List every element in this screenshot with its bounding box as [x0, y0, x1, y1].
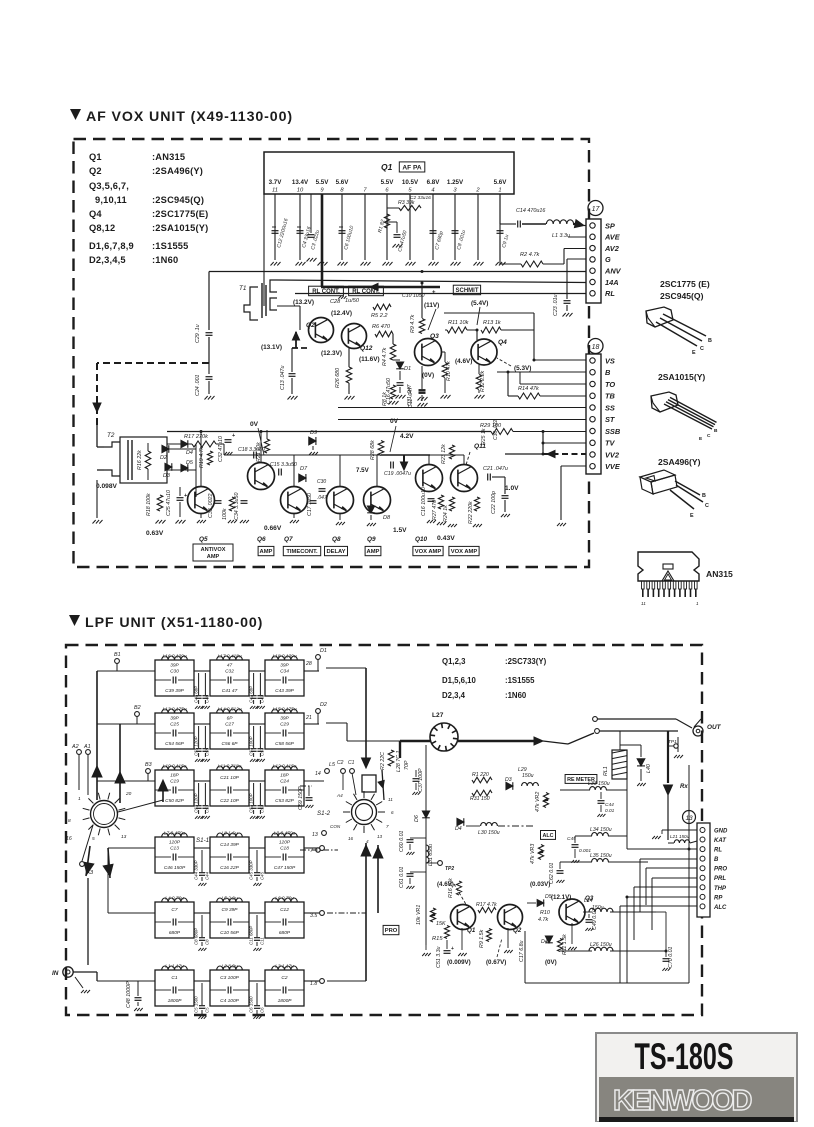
resistor R26 680	[346, 367, 352, 383]
B pin wire	[640, 858, 697, 860]
svg-text:(0.03V): (0.03V)	[530, 881, 550, 888]
svg-text:L8 1.6u: L8 1.6u	[221, 831, 237, 837]
filter block L2 8.9u	[210, 970, 249, 1006]
svg-text:5.6V: 5.6V	[494, 179, 508, 186]
svg-text:6P: 6P	[227, 716, 234, 722]
capacitor C31 .047	[421, 366, 423, 388]
IC package AN315 drawing	[638, 552, 699, 581]
svg-text:RL CONT.: RL CONT.	[352, 289, 380, 295]
svg-text:R2 4.7k: R2 4.7k	[520, 252, 540, 258]
svg-text:4.2V: 4.2V	[400, 433, 414, 440]
svg-text:T2: T2	[107, 432, 115, 439]
capacitor C61 0.01	[410, 871, 426, 873]
resistor R19 4.7k	[207, 451, 212, 465]
svg-text:L10 0.115u: L10 0.115u	[163, 764, 187, 770]
LPF filter row at y=671	[97, 670, 155, 672]
rotary switch S1-2	[352, 800, 377, 825]
svg-text:120P: 120P	[169, 840, 181, 846]
svg-text:R10: R10	[540, 910, 550, 916]
svg-text:VVE: VVE	[605, 462, 621, 471]
svg-text:AMP: AMP	[207, 554, 220, 560]
coil L35	[592, 859, 609, 863]
svg-text:C34 3.3u50: C34 3.3u50	[234, 493, 240, 520]
inductor L1 3.3u	[546, 220, 573, 224]
wire AVE stub	[568, 236, 586, 238]
svg-text:39P: 39P	[170, 663, 179, 669]
ground row Q5	[197, 520, 200, 523]
svg-text:5.5V: 5.5V	[381, 179, 395, 186]
RL pin wire	[627, 848, 697, 850]
grounds under Q1 Q2	[461, 928, 463, 950]
resistor R2 22C	[388, 750, 394, 766]
resistor R4 4.7k	[390, 344, 396, 360]
svg-text:R23 12k: R23 12k	[441, 444, 447, 464]
resistor R27 470	[438, 495, 443, 509]
function label VOX AMP 2	[449, 546, 479, 555]
svg-text:LPF UNIT (X51-1180-00): LPF UNIT (X51-1180-00)	[85, 615, 263, 631]
svg-text:2SA1015(Y): 2SA1015(Y)	[658, 372, 705, 382]
svg-text:0.63V: 0.63V	[146, 530, 164, 537]
filter block L9 0.479u	[265, 837, 304, 873]
capacitor C16 100u10	[428, 498, 435, 500]
svg-text:C56 6P: C56 6P	[222, 741, 239, 747]
row output terminal 3.5	[320, 911, 325, 916]
svg-text:1.5V: 1.5V	[393, 527, 407, 534]
J17 pin 6 14A	[590, 279, 595, 284]
svg-text:D2,3,4,5: D2,3,4,5	[89, 255, 126, 265]
J13 pin 8 RP	[700, 894, 705, 899]
svg-text:R12 2.2k: R12 2.2k	[480, 370, 486, 392]
diode D7 rail	[422, 811, 429, 818]
label RL CONT 2	[349, 286, 384, 296]
svg-text:680P: 680P	[169, 930, 181, 936]
coil L26 line	[589, 947, 613, 951]
LPF filter row at y=781	[97, 780, 155, 782]
J18 pin 7 SSB	[590, 428, 595, 433]
coil L24	[589, 908, 613, 912]
OUT ground	[677, 737, 679, 752]
J13 pin 4 B	[700, 856, 705, 861]
wire bus SSB with R29	[491, 429, 513, 435]
svg-text:(5.3V): (5.3V)	[514, 365, 531, 372]
wire to J18	[510, 329, 534, 331]
svg-text:R17 270k: R17 270k	[184, 434, 209, 440]
capacitor C32 47u10	[225, 439, 232, 441]
svg-text:47k VR2: 47k VR2	[535, 792, 541, 812]
filter block L10 0.115u	[155, 770, 194, 806]
svg-text:C51 120P: C51 120P	[194, 793, 199, 813]
capacitor C4 33/16	[297, 230, 304, 232]
svg-text:C39 39P: C39 39P	[165, 688, 184, 694]
svg-text:ST: ST	[605, 415, 616, 424]
wire S1-1 down to IN line	[87, 878, 89, 965]
PRO pin wire	[646, 867, 697, 869]
rotary switch S1-1	[91, 801, 118, 828]
resistor R20 100k	[229, 497, 234, 511]
svg-text:SP: SP	[605, 221, 615, 230]
svg-text:D1: D1	[320, 648, 327, 654]
transistor Q2 LPF	[498, 905, 523, 930]
J13 pin 7 THP	[700, 885, 705, 890]
J17 pin 4 G	[590, 257, 595, 262]
J18 pin 10 VVE	[590, 464, 595, 469]
svg-text:2SC945(Q): 2SC945(Q)	[660, 291, 704, 301]
resistor R21 10k	[264, 439, 269, 453]
ALC pin wire	[620, 905, 697, 907]
svg-text:Q1,2,3: Q1,2,3	[442, 657, 466, 666]
svg-text:C42 68P: C42 68P	[249, 686, 254, 703]
svg-text:13.4V: 13.4V	[292, 179, 309, 186]
svg-text:D2,3,4: D2,3,4	[442, 691, 466, 700]
heavy wire down arrow	[400, 462, 407, 470]
svg-text:C4 100P: C4 100P	[220, 998, 239, 1004]
wire to ALC	[498, 825, 535, 827]
filter block L18 0.139u	[265, 660, 304, 696]
svg-text:1800P: 1800P	[168, 998, 183, 1004]
svg-text:4.7k: 4.7k	[538, 917, 548, 923]
svg-text:100k: 100k	[222, 508, 228, 520]
svg-text:VOX AMP: VOX AMP	[415, 549, 442, 555]
function label AMP 1	[258, 546, 274, 555]
coil L25 KAT line	[668, 842, 674, 844]
svg-text:C8 680P: C8 680P	[194, 928, 199, 945]
svg-text:R9 1.5k: R9 1.5k	[479, 929, 485, 948]
svg-text:C18 3.3u50: C18 3.3u50	[238, 447, 265, 453]
svg-text:D1,6,7,8,9: D1,6,7,8,9	[89, 241, 134, 251]
svg-text:C7: C7	[171, 907, 177, 913]
svg-text:20: 20	[125, 791, 132, 797]
resistor R31 150	[472, 790, 492, 796]
connector J18 circle	[588, 339, 603, 354]
svg-text:7: 7	[363, 188, 367, 194]
VR2 pot	[543, 793, 548, 808]
row input terminal B3	[146, 769, 151, 774]
wire R17 to bus right	[223, 444, 225, 455]
row output terminal 7	[320, 846, 325, 851]
svg-text:5: 5	[92, 836, 95, 842]
wire Q3 out right	[646, 904, 656, 906]
svg-text:E: E	[699, 436, 703, 442]
transistor Q3 LPF	[559, 899, 585, 925]
svg-text:KENWOOD: KENWOOD	[613, 1085, 753, 1117]
svg-text:L1 1.17u: L1 1.17u	[165, 964, 184, 970]
package 2SA496 drawing	[640, 470, 675, 482]
svg-text:3.7V: 3.7V	[269, 179, 283, 186]
J17 pin 5 ANV	[590, 268, 595, 273]
svg-text:C11 680P: C11 680P	[249, 926, 254, 945]
wire switch to OUT	[597, 718, 676, 720]
svg-text:1u/50: 1u/50	[345, 298, 360, 304]
svg-text:680P: 680P	[279, 930, 291, 936]
svg-text:47: 47	[227, 663, 233, 669]
row output terminal 21	[316, 709, 321, 714]
terminal A3	[80, 862, 85, 867]
svg-text:C25 47u10: C25 47u10	[166, 490, 172, 516]
svg-text:0V: 0V	[250, 421, 259, 428]
capacitor C6 100/10	[339, 230, 346, 232]
svg-text:C34: C34	[280, 669, 289, 675]
wire Q10 Q11 collectors	[428, 455, 430, 465]
resistor R16 10k	[456, 881, 461, 895]
svg-text:C55: C55	[205, 747, 210, 756]
junction heavy dashed wire	[97, 362, 209, 364]
svg-text:+: +	[232, 433, 235, 439]
function label VOX AMP 1	[413, 546, 443, 555]
J18 pin 5 SS	[590, 405, 595, 410]
svg-text:0.098V: 0.098V	[96, 483, 118, 490]
svg-text:C46 150P: C46 150P	[164, 865, 186, 871]
svg-text:C: C	[705, 503, 709, 509]
capacitor C45 0.001	[572, 844, 579, 846]
svg-text:C52 100P: C52 100P	[249, 793, 254, 813]
J17 pin 7 RL	[590, 291, 595, 296]
J17 pin 2 AVE	[590, 234, 595, 239]
connector J17 circle	[588, 201, 603, 216]
svg-text:R10 47k: R10 47k	[446, 361, 452, 381]
resistor R16 22k	[145, 451, 151, 469]
svg-text:10.5V: 10.5V	[402, 179, 419, 186]
svg-text:ANV: ANV	[604, 267, 622, 276]
svg-text:C3 100P: C3 100P	[220, 975, 239, 981]
svg-text:18P: 18P	[170, 773, 179, 779]
svg-text:C60 0.01: C60 0.01	[399, 830, 405, 852]
wire Q6 collector to bus	[260, 432, 262, 464]
svg-text:D9: D9	[310, 430, 317, 436]
J18 pin 1 VS	[590, 358, 595, 363]
resistor R11 10k	[447, 327, 467, 333]
svg-text:8: 8	[340, 188, 344, 194]
svg-text:D3: D3	[505, 777, 512, 783]
svg-text:(5.4V): (5.4V)	[471, 300, 488, 307]
svg-text:L40: L40	[646, 764, 652, 773]
svg-text:+: +	[184, 493, 187, 499]
svg-text:C19: C19	[170, 779, 179, 785]
svg-text:Q2: Q2	[306, 322, 315, 329]
svg-text:E: E	[692, 350, 696, 356]
wire Q4 collector net	[476, 330, 478, 340]
svg-text:C9 1u: C9 1u	[501, 234, 510, 249]
S1-2 top terminals C2 C1	[341, 769, 346, 774]
svg-text:L34 150u: L34 150u	[590, 827, 612, 833]
VR3 pot	[538, 845, 543, 860]
svg-text:C8 .001u: C8 .001u	[456, 229, 467, 250]
svg-text:D6: D6	[414, 815, 420, 822]
IN jack	[63, 967, 73, 977]
svg-text:S1-1: S1-1	[196, 837, 209, 844]
svg-text:C44: C44	[205, 871, 210, 880]
svg-text:+: +	[451, 946, 454, 952]
svg-text:C29: C29	[280, 722, 289, 728]
svg-text:Q2: Q2	[513, 927, 522, 934]
capacitor C8 0.001	[452, 230, 459, 232]
svg-text:TIMECONT.: TIMECONT.	[286, 549, 318, 555]
capacitor C18 3.3u50 series	[253, 452, 255, 459]
svg-text:1.25V: 1.25V	[447, 179, 464, 186]
svg-text:R25 1k: R25 1k	[481, 428, 487, 445]
resistor R17 270k	[192, 441, 216, 447]
svg-text:R26 680: R26 680	[335, 368, 341, 388]
svg-text:C5 47u50: C5 47u50	[397, 230, 408, 253]
svg-text:C2: C2	[337, 760, 344, 766]
resistor R28 68k	[378, 441, 384, 456]
svg-text:C36 .022: C36 .022	[493, 419, 499, 440]
function label AMP 2	[365, 546, 381, 555]
svg-text:C: C	[707, 433, 711, 439]
capacitor C23 .01 on G line	[567, 258, 586, 260]
diode D2	[162, 445, 169, 452]
svg-text:Rx: Rx	[680, 784, 688, 790]
svg-text:C27: C27	[225, 722, 234, 728]
svg-text:C51 3.3u: C51 3.3u	[436, 946, 442, 968]
svg-text:2SA496(Y): 2SA496(Y)	[658, 457, 701, 467]
svg-text:AN315: AN315	[706, 569, 733, 579]
resistor R9 1.5k	[487, 929, 492, 942]
svg-text:16: 16	[66, 836, 72, 842]
resistor R11	[558, 939, 563, 952]
title AF VOX UNIT	[70, 109, 81, 120]
svg-text:R2 22C: R2 22C	[380, 752, 386, 770]
svg-text:B: B	[714, 428, 718, 434]
svg-text:C13 .047u: C13 .047u	[280, 366, 286, 390]
filter block L7 0.479u	[155, 837, 194, 873]
svg-text:RL1: RL1	[603, 766, 609, 776]
svg-text:TO: TO	[605, 380, 615, 389]
svg-text:C6: C6	[260, 1007, 265, 1013]
svg-text:ALC: ALC	[713, 905, 727, 911]
label SCHMIT	[453, 285, 480, 295]
svg-text:C6 1500: C6 1500	[249, 996, 254, 1013]
capacitor C24 .001	[208, 363, 210, 374]
svg-text:IN: IN	[52, 970, 59, 977]
svg-text:(4.6V): (4.6V)	[455, 358, 472, 365]
svg-text:Q4: Q4	[89, 209, 102, 219]
test point TP1	[674, 744, 678, 748]
svg-text:B1: B1	[114, 652, 121, 658]
svg-text:SSB: SSB	[605, 427, 621, 436]
wire bus ST	[338, 419, 586, 421]
diode D5 lpf	[537, 900, 544, 907]
J13 pin 9 ALC	[700, 904, 705, 909]
svg-text:C17 1u50: C17 1u50	[307, 493, 313, 516]
filter block L8 1.6u	[210, 837, 249, 873]
svg-text:PRO: PRO	[714, 867, 727, 873]
LPF filter row at y=724	[97, 723, 155, 725]
svg-text:TP1: TP1	[668, 739, 677, 745]
svg-text:L14 0.512u: L14 0.512u	[217, 707, 241, 713]
right vertical return wire	[688, 765, 690, 983]
svg-text:C11: C11	[260, 937, 265, 945]
svg-text:(0V): (0V)	[422, 372, 434, 379]
pot VR1 10k	[425, 957, 427, 959]
svg-text:C16 22P: C16 22P	[220, 865, 239, 871]
svg-text:C19 .0047u: C19 .0047u	[384, 471, 411, 477]
svg-text:R15: R15	[432, 936, 443, 942]
svg-text:C42: C42	[260, 694, 265, 703]
svg-text:C32 47u10: C32 47u10	[218, 436, 224, 462]
svg-text:1.8: 1.8	[310, 981, 317, 987]
svg-text:14: 14	[315, 771, 321, 777]
svg-text:C32: C32	[225, 669, 234, 675]
PRL pin wire	[652, 877, 697, 879]
svg-text:C37 100P: C37 100P	[418, 768, 424, 792]
svg-text:L26 150u: L26 150u	[590, 942, 612, 948]
wire base Q5	[195, 469, 197, 471]
AF VOX unit dashed border box	[74, 139, 590, 567]
svg-text:R19 4.7k: R19 4.7k	[199, 446, 205, 468]
svg-text:C12: C12	[280, 907, 289, 913]
inductor L30	[481, 823, 498, 827]
filter block L12 0.115u	[265, 770, 304, 806]
svg-text::2SA496(Y): :2SA496(Y)	[152, 166, 203, 176]
svg-text:C30: C30	[317, 479, 326, 485]
svg-text:150u: 150u	[522, 773, 534, 779]
transistor Q3	[415, 339, 442, 366]
svg-text:L13 0.175u: L13 0.175u	[162, 707, 186, 713]
label PRO box	[383, 925, 399, 934]
resistor R8 1k	[390, 385, 395, 399]
svg-text:L2 8.9u: L2 8.9u	[221, 964, 237, 970]
svg-text:Q3,5,6,7,: Q3,5,6,7,	[89, 181, 129, 191]
svg-text::2SC733(Y): :2SC733(Y)	[505, 657, 547, 666]
svg-text:C10 56P: C10 56P	[220, 930, 239, 936]
resistor R14 47k	[518, 393, 540, 399]
resistor R1 82	[384, 214, 389, 228]
svg-text:4: 4	[366, 839, 369, 844]
switch S1-1 spoke terminals	[77, 750, 82, 755]
filter block L1 1.17u	[155, 970, 194, 1006]
svg-text:5: 5	[408, 188, 412, 194]
svg-text:L18 0.139u: L18 0.139u	[272, 654, 296, 660]
filter block L15 0.175u	[265, 713, 304, 749]
svg-text:13: 13	[312, 832, 318, 838]
svg-text:RL: RL	[714, 848, 722, 854]
AN315 pins	[642, 581, 645, 589]
connector J13 circle	[683, 811, 696, 824]
svg-text:C52: C52	[260, 804, 265, 813]
J17 pin 1 SP	[590, 223, 595, 228]
svg-text:(13.1V): (13.1V)	[261, 344, 282, 351]
svg-text:R22 220k: R22 220k	[468, 501, 474, 524]
thick wire into Q2 base	[292, 347, 309, 349]
ground T2 area	[93, 520, 96, 524]
capacitor C13 .047	[291, 348, 293, 372]
THP pin wire	[634, 886, 697, 888]
shunt caps row y=848	[201, 850, 203, 872]
svg-text:C61 0.01: C61 0.01	[399, 866, 405, 888]
svg-text:L5: L5	[329, 762, 336, 768]
svg-text:C1: C1	[348, 760, 355, 766]
svg-text:C2: C2	[281, 975, 287, 981]
J18 pin 8 TV	[590, 440, 595, 445]
function label TIMECONT	[283, 546, 320, 555]
svg-text:C49 0.01: C49 0.01	[592, 908, 598, 930]
svg-text:C57: C57	[260, 747, 265, 756]
shunt caps row y=981	[201, 983, 203, 1005]
filter block L17 0.418u	[210, 660, 249, 696]
capacitor C34 3.3u50	[241, 500, 248, 502]
svg-text:Q1: Q1	[89, 152, 102, 162]
svg-text:11: 11	[388, 797, 393, 802]
svg-text:C41 47: C41 47	[222, 688, 238, 694]
capacitor C33 area	[413, 778, 420, 780]
filter block L14 0.512u	[210, 713, 249, 749]
svg-text:L16 0.139u: L16 0.139u	[162, 654, 186, 660]
diode D3 branch	[506, 782, 513, 789]
svg-text:28: 28	[305, 661, 312, 667]
wire T1 to Q2 area	[277, 305, 300, 307]
diode D8	[367, 506, 374, 513]
svg-text:PRO: PRO	[385, 928, 398, 934]
